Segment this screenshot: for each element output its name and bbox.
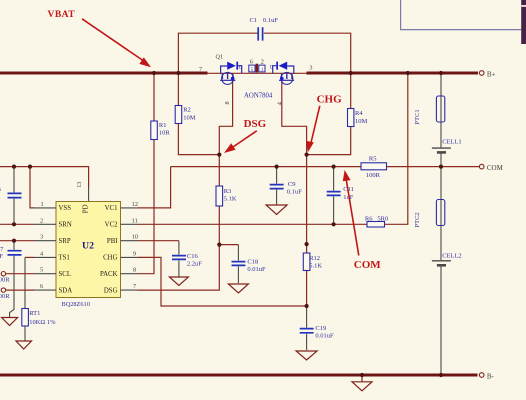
- svg-text:R2: R2: [183, 107, 191, 114]
- svg-text:6: 6: [250, 58, 253, 65]
- svg-text:12: 12: [132, 201, 138, 208]
- node COM row C9: [275, 165, 279, 169]
- node CHG: [305, 153, 309, 157]
- ground for RT1: [16, 341, 32, 349]
- node DSG: [217, 153, 221, 157]
- Q1 part number AON7804: [244, 93, 273, 100]
- Q1 drain mark right: [270, 65, 274, 70]
- svg-text:D: D: [270, 65, 274, 70]
- resistor R6 5R0: [365, 216, 388, 227]
- wire R4 leads: [307, 73, 351, 155]
- node R3 column C18: [217, 243, 221, 247]
- wire VBAT top rail left segment: [0, 72, 208, 75]
- Q1 pin number 2: [261, 58, 264, 65]
- svg-text:1: 1: [41, 201, 44, 208]
- wire R3 column DSG node to DSG pin row: [138, 155, 220, 291]
- node rail B+ riser: [406, 71, 410, 75]
- node R12 column: [305, 242, 309, 246]
- node B- rail ground: [360, 373, 364, 377]
- svg-text:B+: B+: [487, 70, 496, 78]
- Q1 pin number 8: [224, 101, 231, 104]
- capacitor C18 0.01uF: [232, 258, 267, 273]
- wire R1 leads to PACK pin 8: [138, 73, 155, 274]
- U2 pin name PD: [82, 204, 89, 213]
- node left net C15: [12, 165, 16, 169]
- wire VSS pin 1 jog: [30, 167, 34, 208]
- node rail R2 C1: [176, 71, 180, 75]
- ground on B- rail: [352, 375, 372, 391]
- U2 pin name PBI: [107, 238, 118, 245]
- node left net VSS: [28, 165, 32, 169]
- svg-text:C16: C16: [187, 253, 199, 260]
- svg-text:100R: 100R: [0, 293, 10, 300]
- capacitor C9 0.1uF: [270, 181, 303, 195]
- terminal SCL resistor stub: [0, 272, 34, 284]
- svg-text:7: 7: [133, 283, 136, 290]
- svg-text:100R: 100R: [0, 277, 10, 284]
- U2 pin name SRP: [59, 238, 71, 245]
- svg-text:AON7804: AON7804: [244, 93, 273, 100]
- wire R6 to B+ rail riser: [385, 73, 408, 224]
- ground for C19: [296, 351, 317, 360]
- wire R12 column CHG node down: [306, 155, 308, 306]
- wire C1 top loop right leg: [264, 33, 351, 73]
- svg-text:5.1K: 5.1K: [224, 196, 237, 203]
- Q1 pin number 4: [277, 102, 284, 105]
- wire C15 stem: [13, 167, 15, 225]
- svg-text:C15: C15: [0, 186, 1, 193]
- resistor R4 10M: [348, 109, 368, 127]
- Q1 center common bar: [256, 64, 259, 73]
- thermistor RT1 10K: [22, 309, 56, 327]
- node VC2 row C11: [332, 222, 336, 226]
- U2 pin name SCL: [59, 271, 71, 278]
- U2 pin name CHG: [103, 255, 117, 262]
- svg-text:PD: PD: [82, 204, 89, 213]
- svg-text:R3: R3: [224, 188, 232, 195]
- U2 pin name VC1: [105, 205, 118, 212]
- svg-text:TS1: TS1: [59, 255, 70, 262]
- Q1 drain mark left: [239, 65, 243, 70]
- svg-text:B-: B-: [487, 372, 495, 380]
- svg-text:U2: U2: [82, 241, 94, 252]
- U2 pin name DSG: [104, 287, 118, 294]
- wire battery stack column: [440, 73, 442, 375]
- wire PD pin 13 net to left edge: [0, 167, 89, 202]
- svg-text:SDA: SDA: [59, 287, 73, 294]
- wire TS1 pin 4 row: [25, 256, 34, 258]
- U2 pin number 12: [132, 201, 138, 208]
- node B- rail battery: [439, 373, 443, 377]
- U2 reference designator: [82, 241, 94, 252]
- svg-text:5.1K: 5.1K: [309, 262, 322, 269]
- svg-text:COM: COM: [487, 164, 504, 172]
- svg-text:3: 3: [40, 234, 43, 241]
- svg-text:C17: C17: [0, 246, 4, 253]
- U2 part number BQ28Z610: [62, 301, 90, 308]
- svg-text:C9: C9: [288, 181, 296, 188]
- U2 pin name SRN: [59, 222, 72, 229]
- wire top rail thin segment through Q1: [208, 72, 307, 74]
- U2 pin number 3: [40, 234, 43, 241]
- wire C18 branch: [219, 245, 238, 283]
- svg-text:DSG: DSG: [104, 287, 118, 294]
- terminal B-: [479, 372, 494, 380]
- svg-text:VSS: VSS: [59, 205, 72, 212]
- wire C19 stem: [306, 306, 308, 350]
- svg-text:C1: C1: [250, 17, 258, 24]
- sheet symbol top right: [401, 0, 522, 30]
- svg-text:13: 13: [76, 182, 83, 188]
- Q1 reference designator: [216, 54, 224, 61]
- wire C1 top loop left leg: [178, 33, 258, 73]
- capacitor C1: [250, 17, 279, 41]
- svg-text:SRP: SRP: [59, 238, 71, 245]
- svg-text:PTC1: PTC1: [414, 109, 421, 124]
- U2 pin number 11: [132, 217, 138, 224]
- battery CELL2: [432, 252, 462, 265]
- svg-text:R5: R5: [369, 155, 377, 162]
- annotation COM: [343, 170, 382, 271]
- U2 pin number 5: [40, 267, 43, 274]
- capacitor C15: [0, 186, 22, 201]
- node R12 C19: [305, 304, 309, 308]
- wire COM row: [171, 166, 480, 168]
- capacitor C11 1uF: [327, 186, 354, 201]
- svg-text:RT1: RT1: [29, 310, 40, 317]
- svg-text:PACK: PACK: [100, 271, 118, 278]
- svg-text:SRN: SRN: [59, 222, 72, 229]
- Q1 center pin box 5: [249, 65, 255, 73]
- U2 pin number 6: [40, 283, 43, 290]
- U2 pin number 1: [41, 201, 44, 208]
- Q1 pin number 3: [309, 65, 312, 72]
- annotation VBAT: [48, 9, 152, 68]
- wire R2 leads: [178, 73, 219, 155]
- fuse PTC1: [414, 96, 445, 125]
- ground for C16: [169, 277, 188, 286]
- svg-text:0.1uF: 0.1uF: [0, 253, 3, 260]
- svg-text:C18: C18: [247, 258, 258, 265]
- wire SRP pin 3 row: [0, 240, 34, 242]
- svg-text:2: 2: [40, 217, 43, 224]
- svg-text:0.01uF: 0.01uF: [247, 266, 266, 273]
- annotation CHG: [306, 94, 342, 153]
- wire Q1 pin 8 to DSG node: [219, 81, 232, 155]
- U2 pin name TS1: [59, 255, 70, 262]
- svg-text:DSG: DSG: [244, 118, 267, 130]
- battery CELL1: [432, 138, 462, 152]
- fuse PTC2: [414, 200, 445, 228]
- svg-text:8: 8: [133, 267, 136, 274]
- wire CHG pin 9 path to R12 bottom: [138, 257, 307, 306]
- U2 pin number 7: [133, 283, 136, 290]
- svg-text:R4: R4: [355, 110, 363, 117]
- svg-text:VBAT: VBAT: [48, 9, 76, 20]
- svg-text:R6: R6: [365, 216, 373, 223]
- wire SRN pin 2 row: [0, 223, 34, 225]
- svg-text:BQ28Z610: BQ28Z610: [62, 301, 90, 308]
- svg-text:10KΩ 1%: 10KΩ 1%: [29, 319, 56, 326]
- svg-text:VC1: VC1: [105, 205, 118, 212]
- resistor R3 5.1K: [216, 186, 237, 206]
- wire C17 stem to ground: [10, 241, 14, 318]
- svg-text:10M: 10M: [355, 118, 368, 125]
- U2 pin number 8: [133, 267, 136, 274]
- svg-text:PTC2: PTC2: [414, 212, 421, 227]
- svg-text:3: 3: [309, 65, 312, 72]
- svg-text:10R: 10R: [159, 130, 171, 137]
- node SRP C17: [12, 239, 16, 243]
- U2 right pin stubs: [121, 208, 138, 290]
- port bar top right: [521, 0, 526, 44]
- svg-text:11: 11: [132, 217, 138, 224]
- wire VC2 pin 11 row to R6: [138, 223, 368, 225]
- ground for C18: [228, 284, 248, 293]
- svg-text:10: 10: [132, 234, 138, 241]
- svg-text:4: 4: [277, 102, 284, 105]
- svg-text:6: 6: [40, 283, 43, 290]
- U2 pin name SDA: [59, 287, 73, 294]
- svg-text:CELL1: CELL1: [442, 138, 462, 145]
- svg-text:10M: 10M: [183, 115, 196, 122]
- svg-text:9: 9: [133, 250, 136, 257]
- resistor R1 10R: [151, 121, 171, 140]
- ground for C9: [266, 205, 287, 215]
- U2 pin number 10: [132, 234, 138, 241]
- terminal B+: [479, 70, 495, 78]
- U2 pin number 2: [40, 217, 43, 224]
- svg-text:R12: R12: [309, 255, 320, 262]
- capacitor C17 0.1uF: [0, 246, 22, 260]
- node rail battery column: [439, 71, 443, 75]
- node COM row C11: [332, 165, 336, 169]
- transistor Q1 right FET body: [273, 62, 295, 85]
- svg-text:5R0: 5R0: [377, 216, 388, 223]
- op-amp U2 BQ28Z610 body: [56, 202, 121, 298]
- Q1 center pin box 1: [259, 65, 265, 73]
- svg-text:C19: C19: [315, 325, 326, 332]
- wire B- bottom rail: [0, 374, 478, 377]
- svg-text:VC2: VC2: [105, 222, 118, 229]
- resistor R2 10M: [175, 106, 196, 124]
- svg-text:0.01uF: 0.01uF: [315, 332, 334, 339]
- U2 pin number 4: [40, 250, 43, 257]
- svg-text:7: 7: [199, 66, 202, 73]
- resistor R12 5.1K: [303, 253, 322, 271]
- svg-text:Q1: Q1: [216, 54, 224, 61]
- U2 pin name PACK: [100, 271, 118, 278]
- terminal COM: [479, 164, 503, 172]
- svg-text:2.2uF: 2.2uF: [187, 261, 202, 268]
- svg-text:D: D: [239, 65, 243, 70]
- annotation DSG: [224, 118, 267, 153]
- svg-text:R1: R1: [159, 122, 167, 129]
- Q1 pin number 6: [250, 58, 253, 65]
- wire RT1 column: [24, 257, 26, 340]
- svg-text:0.1uF: 0.1uF: [263, 17, 278, 24]
- capacitor C19 0.01uF: [300, 325, 334, 340]
- U2 pin name VSS: [59, 205, 72, 212]
- Q1 pin number 7: [199, 66, 202, 73]
- wire B+ rail right segment: [307, 72, 479, 75]
- resistor R5 100R: [361, 155, 387, 179]
- node COM row battery: [439, 165, 443, 169]
- node rail R1: [152, 71, 156, 75]
- svg-text:5: 5: [40, 267, 43, 274]
- wire C9 stem: [276, 167, 278, 205]
- svg-text:CHG: CHG: [317, 94, 343, 106]
- svg-text:8: 8: [224, 101, 231, 104]
- svg-text:COM: COM: [354, 259, 382, 271]
- U2 pin number 13: [76, 182, 83, 188]
- svg-text:4: 4: [40, 250, 43, 257]
- svg-text:SCL: SCL: [59, 271, 71, 278]
- node SRN C15: [12, 222, 16, 226]
- U2 pin number 9: [133, 250, 136, 257]
- U2 left pin stubs: [34, 208, 56, 290]
- svg-text:CELL2: CELL2: [442, 252, 462, 259]
- svg-text:100R: 100R: [366, 172, 381, 179]
- svg-text:CHG: CHG: [103, 255, 117, 262]
- svg-text:2: 2: [261, 58, 264, 65]
- wire Q1 pin 4 to CHG node: [282, 81, 307, 155]
- capacitor C16 2.2uF: [172, 253, 202, 268]
- wire VC1 pin 12 jog to COM row: [138, 167, 171, 208]
- svg-text:PBI: PBI: [107, 238, 118, 245]
- terminal SDA resistor stub: [0, 288, 34, 300]
- svg-text:0.1uF: 0.1uF: [287, 188, 302, 195]
- transistor Q1 left FET body: [220, 62, 242, 85]
- ground for C17: [2, 318, 18, 326]
- U2 pin name VC2: [105, 222, 118, 229]
- wire PBI pin 10 to C16: [138, 241, 179, 277]
- node rail C1 R4: [349, 71, 353, 75]
- wire C11 stem: [333, 167, 335, 225]
